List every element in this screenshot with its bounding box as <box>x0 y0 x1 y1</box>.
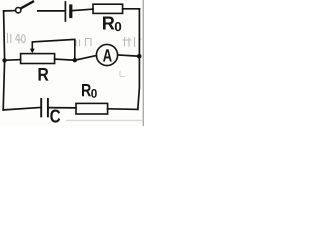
wire: ammeter to right rail <box>118 55 140 56</box>
label C capacitor <box>50 110 60 123</box>
ammeter U1 circle <box>96 44 117 65</box>
wire: left rail <box>3 11 4 110</box>
wire: top-left to switch <box>4 10 16 12</box>
label R0-top R <box>103 17 115 30</box>
label R0-top 0 <box>115 22 121 31</box>
node: right rail junction <box>137 54 142 59</box>
switch S hinge <box>16 8 21 13</box>
faint scan bleed-through marks (decorative) <box>8 33 142 47</box>
battery: long plate <box>64 2 66 21</box>
node: wiper junction <box>73 58 77 62</box>
label R0-bottom 0 <box>91 89 97 98</box>
wire: rheostat to junction <box>55 59 75 60</box>
rheostat wiper arrowhead <box>30 49 35 54</box>
resistor R0 (top) box <box>93 4 123 13</box>
wire: middle branch, rail to rheostat <box>5 59 21 62</box>
capacitor C right plate <box>47 99 49 116</box>
rheostat wiper lead wire <box>32 39 75 60</box>
node: left rail junction <box>2 58 6 62</box>
resistor R0 (bottom) box <box>76 103 108 114</box>
rheostat R box <box>21 54 55 64</box>
wire: right rail <box>138 9 140 110</box>
label R rheostat <box>39 68 49 81</box>
wire: battery to R0 box <box>73 9 93 11</box>
capacitor C left plate <box>40 99 42 116</box>
label A ammeter <box>103 49 112 61</box>
wire: R0 box to right rail <box>123 8 140 10</box>
label R0-bottom R <box>82 84 91 96</box>
switch S blade <box>21 2 33 9</box>
wire: switch to battery <box>38 10 64 12</box>
wire: bottom-left rail to capacitor <box>3 108 40 110</box>
wire: junction to ammeter <box>75 56 97 61</box>
wire: capacitor to R0 bottom box <box>49 107 76 109</box>
wire: R0 bottom box to right rail <box>108 108 138 111</box>
battery: short thick plate <box>69 6 72 17</box>
